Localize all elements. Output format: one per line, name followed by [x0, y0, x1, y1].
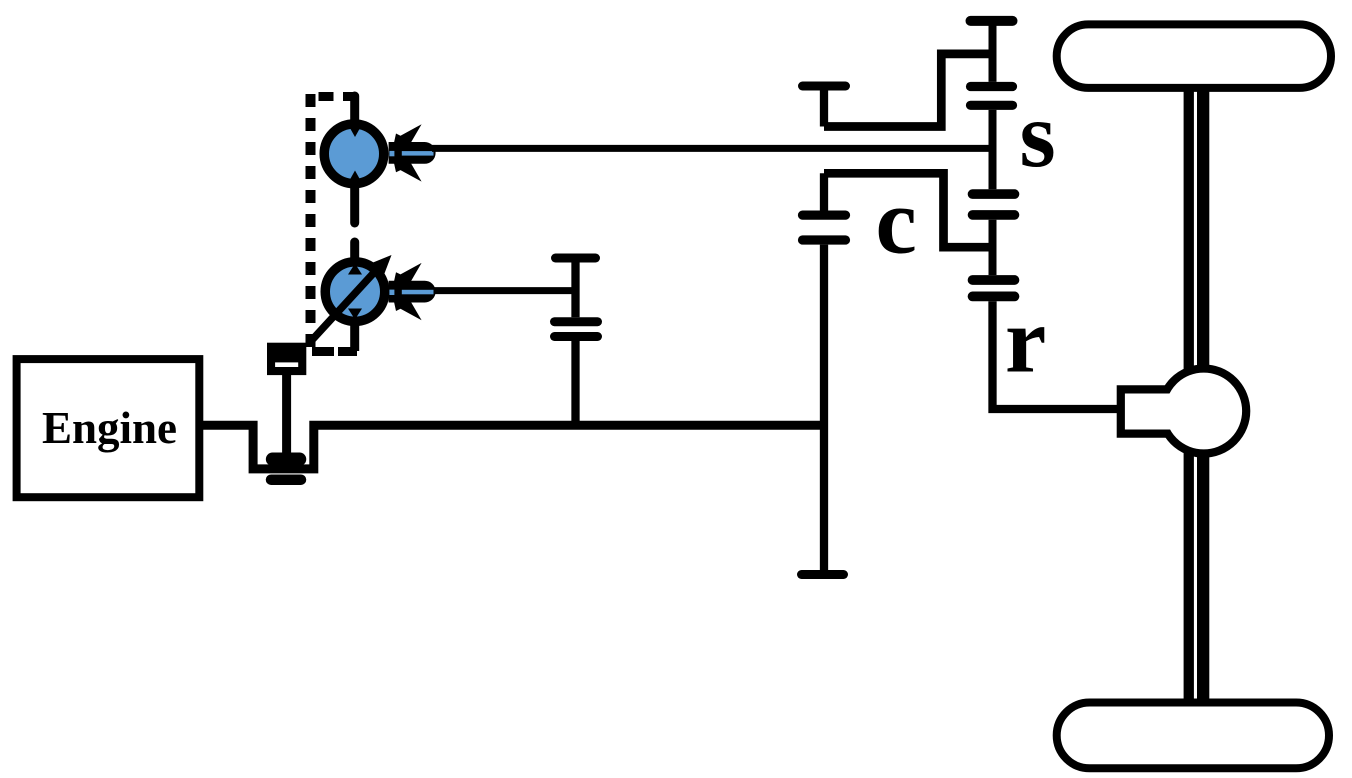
carrier clutch bar lower	[803, 235, 846, 244]
pump/motor M1 circle	[324, 124, 384, 184]
svg-text:s: s	[1020, 84, 1056, 187]
carrier long stem down	[820, 245, 828, 575]
P2 inner triangle bottom (outward)	[348, 309, 362, 320]
M1 inner triangle top (inward)	[348, 125, 362, 138]
pump P2 top port	[350, 242, 359, 262]
P2 bottom port with foot	[350, 323, 359, 351]
sun stem 3	[989, 220, 997, 275]
pump/motor M1 top port hook	[343, 92, 354, 101]
M1 shaft wire to sun gear	[432, 145, 993, 152]
P2 inner triangle top (outward)	[348, 264, 362, 275]
ring mesh pair3 bar1	[973, 275, 1015, 285]
differential input housing (open rect)	[1125, 394, 1173, 430]
G1 mesh bar upper	[555, 317, 598, 326]
carrier column: top T-bar	[803, 82, 846, 91]
wheel bottom	[1057, 703, 1329, 769]
gear column G1: top T-bar	[556, 254, 596, 263]
engine output shaft wire (with step-down under clutch)	[203, 425, 824, 469]
wire line2 with elbow down to sun column	[824, 173, 993, 247]
vertical shaft from square node to clutch	[282, 373, 291, 453]
G1 mesh bar lower	[555, 332, 598, 341]
sun mesh pair1 bar1	[971, 82, 1013, 91]
P2 shaft arrow assembly	[389, 263, 436, 320]
dashed control linkage (vertical)	[306, 94, 316, 352]
axle lower (double line)	[1184, 452, 1210, 706]
G1 stem upper	[571, 258, 579, 317]
sun column top T-bar	[971, 16, 1013, 26]
engine box	[17, 359, 200, 497]
carrier bottom T-bar	[802, 570, 844, 579]
P2 shaft wire to gear	[434, 287, 576, 294]
sun mesh pair2 bar1	[973, 189, 1015, 199]
G1 stem lower to engine shaft	[571, 341, 579, 430]
clutch plate upper	[273, 453, 300, 466]
ring mesh pair3 bar2	[973, 292, 1015, 302]
sun stem 2	[989, 110, 997, 189]
M1 shaft arrow assembly	[389, 124, 436, 181]
svg-text:c: c	[876, 171, 917, 274]
wheel top	[1057, 24, 1331, 88]
differential circle	[1161, 369, 1246, 454]
carrier stem middle	[820, 173, 828, 210]
carrier clutch bar upper	[803, 211, 846, 220]
carrier stem upper	[820, 86, 828, 127]
square node (slider block)	[267, 343, 306, 375]
dashed linkage bottom dash	[312, 347, 334, 356]
pump P2 circle	[325, 262, 385, 322]
sun mesh pair2 bar2	[973, 210, 1015, 220]
sun mesh pair1 bar2	[971, 101, 1013, 110]
wire line1 with elbow up to sun column	[824, 54, 993, 127]
M1 inner triangle bottom (inward)	[348, 171, 362, 184]
clutch plate lower	[271, 474, 301, 485]
M1 bottom port	[350, 186, 359, 223]
axle upper (double line)	[1184, 85, 1210, 370]
svg-text:Engine: Engine	[42, 403, 177, 453]
sun stem 1	[989, 21, 997, 82]
P2 variable displacement diagonal arrow	[312, 266, 380, 340]
dashed linkage top dash	[319, 92, 334, 101]
ring output wire down and right to differential	[993, 301, 1121, 409]
svg-text:r: r	[1005, 290, 1046, 393]
